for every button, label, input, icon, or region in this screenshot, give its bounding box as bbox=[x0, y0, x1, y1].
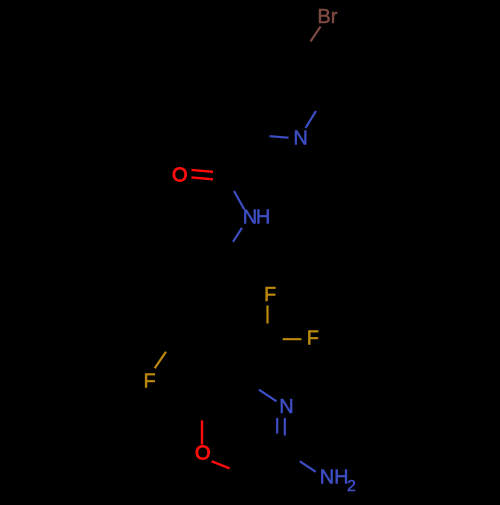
double bond N3=C2 inner line (nitrogen half) bbox=[276, 418, 278, 434]
svg-text:Br: Br bbox=[317, 6, 337, 28]
bond O1-C6 (oxygen half) bbox=[212, 461, 230, 468]
svg-text:NH: NH bbox=[243, 206, 270, 228]
double bond N3=C2 main line (nitrogen half) bbox=[284, 418, 286, 436]
bond Br-C5 (bromine half) bbox=[311, 27, 321, 42]
svg-text:O: O bbox=[195, 442, 211, 464]
double bond C=O lower line (oxygen half) bbox=[192, 177, 214, 179]
bond F1-C (fluorine half) bbox=[266, 306, 268, 324]
svg-text:F: F bbox=[307, 328, 319, 350]
bond F2-C (fluorine half) bbox=[283, 338, 302, 340]
bond C(=O)-NH (nitrogen half) bbox=[234, 191, 244, 209]
svg-text:N: N bbox=[293, 128, 307, 150]
svg-text:F: F bbox=[264, 284, 276, 306]
svg-text:NH: NH bbox=[320, 467, 349, 489]
bond NH-C1aryl (nitrogen half) bbox=[233, 228, 242, 242]
bond N1-C6 (nitrogen half) bbox=[306, 111, 317, 128]
bond F3-Caryl (fluorine half) bbox=[155, 352, 166, 369]
bond N1-C2 (nitrogen half) bbox=[270, 136, 289, 138]
svg-text:F: F bbox=[144, 371, 156, 393]
double bond C=O upper line (oxygen half) bbox=[192, 170, 214, 172]
svg-text:N: N bbox=[279, 396, 293, 418]
bond C2-NH2 (nitrogen half) bbox=[300, 461, 316, 472]
bond N3-C4 (nitrogen half) bbox=[259, 390, 277, 402]
svg-text:2: 2 bbox=[347, 478, 356, 495]
svg-text:O: O bbox=[172, 165, 188, 187]
bond O1-C5 (oxygen half) bbox=[201, 420, 203, 444]
